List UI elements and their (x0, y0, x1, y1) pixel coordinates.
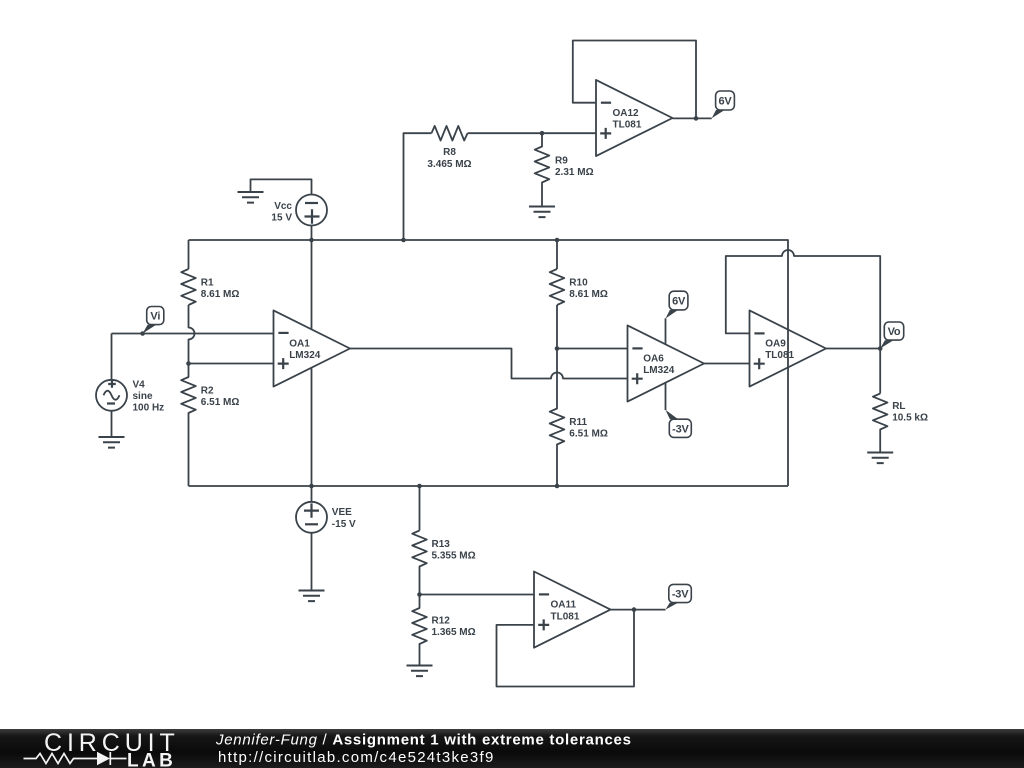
node OA12 output junction dot (694, 116, 699, 121)
wire VEE to ground (311, 533, 313, 591)
node Vi junction dot (140, 331, 145, 336)
wire divider node to OA11 inverting input (420, 594, 535, 596)
resistor R2 (181, 364, 196, 487)
node R9 junction dot (540, 131, 545, 136)
logo resistor-diode squiggle (24, 752, 127, 765)
svg-text:6.51 MΩ: 6.51 MΩ (201, 397, 240, 408)
ground below R9 (529, 207, 555, 218)
wire V4 top lead (111, 334, 113, 380)
wire top supply bus with right rail (189, 240, 789, 486)
wire OA11 output (611, 609, 666, 611)
svg-text:OA9: OA9 (765, 339, 786, 350)
node R13 bus junction dot (417, 484, 422, 489)
ground top left (238, 192, 264, 203)
ground below V4 (99, 437, 125, 448)
wire R10 top lead (556, 240, 558, 269)
flag Vo (880, 322, 904, 349)
node R11 bus junction dot (555, 484, 560, 489)
svg-text:RL: RL (892, 401, 905, 412)
voltage source VEE -15V (296, 502, 356, 533)
wire OA6 V- pin (665, 383, 667, 410)
svg-text:sine: sine (133, 391, 153, 402)
flag -3V at OA11 output (666, 584, 692, 609)
wire OA6 output to OA9 noninverting input (704, 363, 750, 365)
wire V4 bottom lead (111, 411, 113, 437)
flag 6V at OA12 output (712, 91, 735, 118)
svg-text:R2: R2 (201, 386, 214, 397)
svg-text:6.51 MΩ: 6.51 MΩ (569, 429, 608, 440)
op-amp OA6 (628, 325, 705, 401)
svg-text:R12: R12 (432, 615, 451, 626)
svg-text:TL081: TL081 (551, 611, 580, 622)
op-amp OA9 (750, 310, 827, 386)
voltage source Vcc 15V (271, 195, 327, 226)
wire R13 top lead (419, 486, 421, 531)
svg-text:Vcc: Vcc (274, 201, 292, 212)
node OA11 output junction dot (632, 607, 637, 612)
node R13 R12 junction dot (417, 592, 422, 597)
flag 6V at OA6 (666, 291, 688, 318)
node R8 branch bus junction dot (401, 238, 406, 243)
svg-text:V4: V4 (133, 379, 146, 390)
wire R1 bottom lead with hop over Vi wire (189, 305, 195, 364)
resistor R13 (412, 531, 427, 595)
ground below VEE (299, 591, 325, 602)
node R1 R2 junction dot (186, 361, 191, 366)
node VEE bus junction dot (309, 484, 314, 489)
wire R1 top lead from top bus (188, 240, 190, 269)
ground below RL (867, 453, 893, 464)
wire Vi input to OA1 inverting input (112, 333, 274, 335)
node Vcc bus junction dot (309, 238, 314, 243)
svg-text:LAB: LAB (127, 750, 176, 768)
CircuitLab logo wordmark (44, 729, 180, 768)
svg-text:-3V: -3V (672, 423, 689, 435)
resistor R8 (432, 126, 468, 141)
node Vo junction dot (878, 346, 883, 351)
resistor RL (873, 394, 888, 453)
wire OA1 V- pin to bottom bus (311, 368, 313, 502)
svg-text:6V: 6V (672, 296, 686, 308)
node R10 R11 junction dot (555, 346, 560, 351)
svg-text:10.5 kΩ: 10.5 kΩ (892, 412, 928, 423)
wire R8 to OA12 noninverting input (468, 132, 597, 134)
ground below R12 (407, 666, 433, 677)
wire OA12 feedback loop (573, 41, 696, 119)
svg-text:5.355 MΩ: 5.355 MΩ (432, 551, 476, 562)
svg-text:VEE: VEE (332, 507, 352, 518)
svg-text:15 V: 15 V (271, 213, 292, 224)
svg-text:R1: R1 (201, 278, 214, 289)
svg-text:TL081: TL081 (765, 350, 794, 361)
svg-text:LM324: LM324 (643, 365, 675, 376)
wire bus up to R8 (404, 133, 432, 240)
wire OA9 feedback loop with hop over rail (726, 250, 880, 349)
resistor R9 (535, 133, 550, 206)
svg-text:TL081: TL081 (613, 120, 642, 131)
resistor R11 (550, 349, 565, 487)
svg-text:OA12: OA12 (613, 108, 640, 119)
node R10 bus junction dot (555, 238, 560, 243)
svg-text:LM324: LM324 (289, 350, 321, 361)
wire OA12 output (673, 117, 712, 119)
wire R10 bottom lead to divider node (556, 305, 558, 349)
wire divider node to OA6 inverting input (557, 348, 628, 350)
svg-text:OA11: OA11 (551, 600, 577, 611)
svg-text:8.61 MΩ: 8.61 MΩ (201, 289, 240, 300)
svg-text:R10: R10 (569, 278, 588, 289)
resistor R10 (550, 269, 565, 305)
wire OA11 feedback loop (497, 610, 635, 687)
op-amp OA11 (534, 572, 611, 648)
resistor R12 (412, 595, 427, 666)
svg-text:3.465 MΩ: 3.465 MΩ (427, 159, 471, 170)
svg-text:2.31 MΩ: 2.31 MΩ (555, 167, 594, 178)
svg-text:R9: R9 (555, 156, 568, 167)
svg-text:6V: 6V (718, 96, 732, 108)
svg-text:-15 V: -15 V (332, 519, 356, 530)
wire OA1 output to OA6 noninverting input with hop (350, 349, 628, 379)
voltage source V4 sine (96, 379, 164, 413)
wire OA6 V+ pin (665, 318, 667, 344)
svg-text:R11: R11 (569, 417, 587, 428)
svg-text:-3V: -3V (672, 589, 689, 601)
wire Vcc rail to OA1 V+ pin (311, 226, 313, 330)
svg-text:8.61 MΩ: 8.61 MΩ (569, 289, 608, 300)
resistor R1 (181, 269, 196, 305)
svg-text:1.365 MΩ: 1.365 MΩ (432, 627, 476, 638)
wire bottom supply bus (189, 485, 789, 487)
svg-text:R13: R13 (432, 539, 451, 550)
wire OA9 output (826, 348, 880, 350)
svg-text:Jennifer-Fung / Assignment 1 w: Jennifer-Fung / Assignment 1 with extrem… (215, 732, 632, 749)
op-amp OA12 (596, 80, 673, 156)
flag Vi (143, 307, 164, 334)
svg-text:OA6: OA6 (643, 354, 664, 365)
svg-text:http://circuitlab.com/c4e524t3: http://circuitlab.com/c4e524t3ke3f9 (218, 749, 495, 766)
wire divider node to OA1 noninverting input (189, 363, 274, 365)
svg-text:R8: R8 (443, 147, 456, 158)
svg-text:OA1: OA1 (289, 339, 310, 350)
svg-text:Vi: Vi (150, 311, 160, 323)
wire Vo node to RL (879, 349, 881, 394)
wire Vcc to ground (251, 179, 312, 194)
svg-text:100 Hz: 100 Hz (133, 403, 165, 414)
flag -3V at OA6 (666, 410, 692, 438)
svg-text:Vo: Vo (888, 326, 901, 338)
op-amp OA1 (274, 310, 351, 386)
